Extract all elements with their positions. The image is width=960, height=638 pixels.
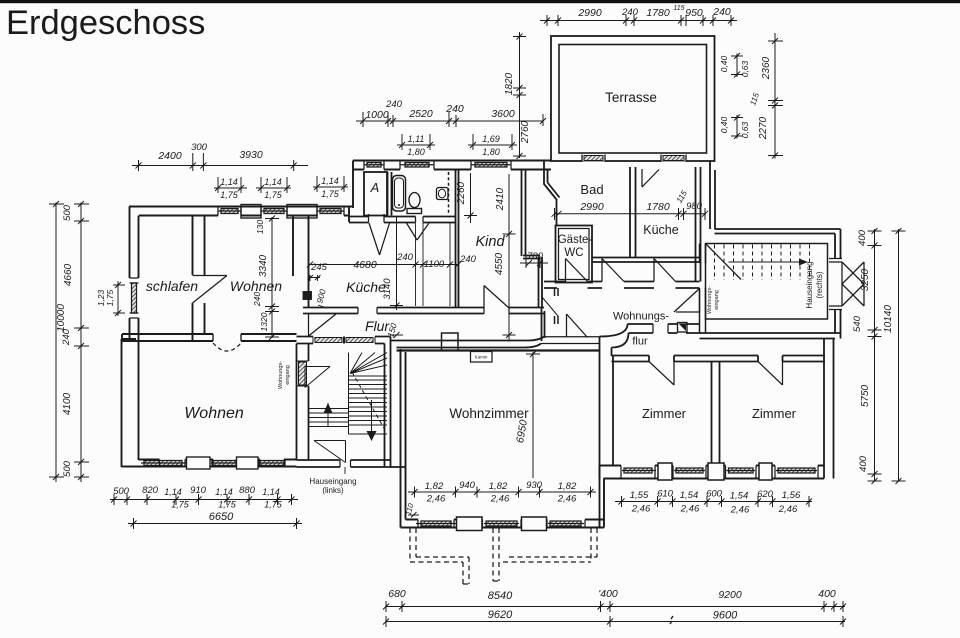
svg-text:4660: 4660 <box>63 263 74 286</box>
svg-text:Terrasse: Terrasse <box>605 90 657 105</box>
Wohnzimmer south wall band <box>401 520 605 528</box>
svg-text:2760: 2760 <box>520 120 531 144</box>
door A swing V <box>369 223 390 255</box>
svg-text:1,14: 1,14 <box>164 487 182 497</box>
window W-C2 Wohnzimmer <box>483 520 522 528</box>
svg-text:0,40: 0,40 <box>719 55 729 72</box>
small dims 0,40 0,63 pair lower <box>731 115 743 140</box>
Zimmer dim chain 1,55 610 1,54 600 1,54 620 1,56 / 2,46 <box>615 496 812 507</box>
svg-text:flur: flur <box>632 336 648 348</box>
svg-text:10140: 10140 <box>883 305 894 333</box>
svg-text:400: 400 <box>858 455 869 472</box>
dim 6650 <box>128 518 302 529</box>
stairs walk line dashed <box>352 372 385 430</box>
dim chain 4680 240 1100 240 <box>307 262 461 268</box>
svg-text:'400: '400 <box>598 588 618 600</box>
svg-text:8540: 8540 <box>488 590 513 602</box>
window W-Z1 <box>621 466 656 479</box>
east wall of Kind <box>522 170 526 256</box>
bottom-left dim chain 500 820 1,14 910 1,14 880 1,14 <box>110 494 298 505</box>
toilet WC bowl <box>409 193 420 208</box>
Bad west wall with chamfer <box>544 161 557 226</box>
svg-text:600: 600 <box>706 489 723 500</box>
boiler symbol black square BB <box>303 292 312 300</box>
winder fan treads <box>350 353 387 374</box>
svg-text:3930: 3930 <box>239 149 263 161</box>
svg-text:2360: 2360 <box>761 56 772 80</box>
window W-M2 <box>400 161 434 170</box>
window W-M1 <box>364 161 384 170</box>
bottom dim line 9620 9600 <box>383 616 846 627</box>
bath east partition dashed <box>448 172 450 215</box>
door Wohnen-stairwell hatched <box>297 361 309 386</box>
winder stairs box <box>349 353 388 435</box>
door bath swing V <box>407 223 430 240</box>
door Kueche north leaf and swing <box>642 169 659 187</box>
window W-Z4 <box>775 466 818 479</box>
svg-text:1,14: 1,14 <box>215 487 233 497</box>
stairs cut diagonal <box>706 244 741 280</box>
north wall left section outer line <box>129 206 353 208</box>
svg-text:1,14: 1,14 <box>262 487 280 497</box>
stair hall walls <box>706 244 828 320</box>
svg-text:950: 950 <box>685 7 703 19</box>
door Zimmer2 leaf and swing <box>758 362 783 386</box>
vertical dim 1820 / 2760 left of Terrasse <box>513 32 526 159</box>
svg-text:(rechts): (rechts) <box>815 271 824 298</box>
pier block 1 <box>187 457 211 469</box>
Hauseingang links door jambs <box>340 460 351 467</box>
svg-text:Zimmer: Zimmer <box>752 406 797 421</box>
stair hall bottom wall band <box>700 333 841 339</box>
svg-text:2,46: 2,46 <box>426 494 446 505</box>
svg-text:2260: 2260 <box>456 181 467 205</box>
door A jambs <box>369 214 385 223</box>
stairwell east wall <box>385 351 391 467</box>
window dim 1,23/1,75 rotated at west wall <box>113 281 125 316</box>
south wall upper Wohnen band <box>241 334 297 341</box>
svg-text:Erdgeschoss: Erdgeschoss <box>6 4 205 42</box>
window dim 1,69/1,80 <box>468 134 517 150</box>
door Kueche-south jambs <box>358 308 377 314</box>
corridor double door hatched bar 2 <box>345 337 376 344</box>
svg-text:2270: 2270 <box>758 116 769 140</box>
Wohnzimmer interior dim chain 1,82 940 1,82 930 1,82 / 2,46 <box>408 487 596 498</box>
svg-text:2,46: 2,46 <box>778 504 798 515</box>
svg-text:2410: 2410 <box>495 187 506 211</box>
Terrasse outer wall <box>551 36 715 161</box>
chimney bump above Wohnzimmer <box>442 333 459 350</box>
window W-Z3 <box>726 466 757 479</box>
pier block W1 <box>457 517 483 531</box>
dim 2410 / 4550 vertical <box>503 174 516 340</box>
svg-text:1,75: 1,75 <box>218 500 237 510</box>
window W-C1 Wohnzimmer <box>416 520 456 528</box>
svg-text:Kamin: Kamin <box>475 355 488 360</box>
svg-text:Wohnungs-: Wohnungs- <box>278 361 284 389</box>
svg-text:1820: 1820 <box>504 72 515 95</box>
svg-text:6650: 6650 <box>209 511 234 523</box>
svg-text:eingang: eingang <box>285 365 291 385</box>
svg-text:A: A <box>370 180 380 195</box>
window dim 1,11/1,80 <box>397 134 435 150</box>
svg-text:240: 240 <box>459 254 477 265</box>
small dims 0,40 0,63 pair upper <box>731 53 743 78</box>
svg-text:1,56: 1,56 <box>782 490 801 501</box>
svg-text:(links): (links) <box>322 486 344 495</box>
svg-text:500: 500 <box>113 486 130 497</box>
right apartment corridor south wall <box>612 356 826 362</box>
Kind nook wall horizontal <box>523 256 540 259</box>
pier block 2 <box>237 457 259 469</box>
svg-text:240: 240 <box>621 7 639 18</box>
svg-text:300: 300 <box>191 142 208 153</box>
door Kueche leaf and swing <box>654 259 676 282</box>
svg-text:880: 880 <box>239 485 256 496</box>
svg-text:1100: 1100 <box>424 259 445 270</box>
top border rule <box>0 0 960 3</box>
wall pier between W-L1 and W-L2 <box>241 205 261 219</box>
svg-text:0,63: 0,63 <box>740 121 750 138</box>
Wohnungsflur south wall curved junction inner arc <box>612 333 629 348</box>
corridor south wall at jog <box>375 337 391 344</box>
Kind nook wall vertical <box>539 257 543 308</box>
dim 3140 vertical <box>390 217 403 310</box>
Wohnzimmer west wall <box>401 349 406 528</box>
wall between A and bath <box>388 172 392 216</box>
Wohnzimmer north wall <box>397 349 600 351</box>
wall between upper Wohnen and Kueche <box>293 216 309 309</box>
corridor south wall east band <box>391 341 529 348</box>
wash basin <box>437 188 449 200</box>
window W-T2 Terrasse south wall <box>661 155 686 162</box>
svg-text:1,75: 1,75 <box>264 500 283 510</box>
svg-text:0,63: 0,63 <box>740 60 750 77</box>
svg-text:Gäste-: Gäste- <box>558 234 593 246</box>
dashed terrace outline below Wohnzimmer <box>410 528 597 584</box>
Zimmer section bottom wall band <box>600 463 825 480</box>
stairwell south wall band <box>297 460 406 467</box>
label Hauseingang (links) with leader <box>344 467 346 474</box>
svg-text:2990: 2990 <box>579 201 604 213</box>
stair hall left wall band <box>700 244 706 334</box>
west wall of Kind <box>456 170 459 308</box>
wall between Zimmer1 and Zimmer2 <box>712 362 720 466</box>
dimension chain 1000 240 2520 240 3600 <box>356 112 546 127</box>
svg-text:Hauseingang: Hauseingang <box>309 477 356 486</box>
west wall schlafen <box>130 207 139 341</box>
svg-text:Wohnungs-: Wohnungs- <box>707 286 713 314</box>
svg-text:940: 940 <box>459 480 476 491</box>
Gaeste-WC box inner <box>559 229 590 280</box>
svg-text:1,80: 1,80 <box>407 147 425 157</box>
svg-text:240: 240 <box>61 328 72 346</box>
svg-text:240: 240 <box>385 99 403 110</box>
Wohnen west wall <box>122 339 139 467</box>
svg-text:2,46: 2,46 <box>631 504 651 515</box>
door corridor-Wohnungsflur leaf and swing <box>567 314 588 338</box>
svg-text:1,75: 1,75 <box>171 500 190 510</box>
svg-text:Küche: Küche <box>346 279 386 295</box>
east wall at stairhall <box>835 229 841 339</box>
svg-text:1,11: 1,11 <box>408 134 425 144</box>
apartment separating wall Wohnzimmer/Zimmer <box>600 337 614 521</box>
door Wohnungsflur jambs <box>653 324 668 333</box>
witness lines for 1100 dim <box>416 223 459 306</box>
door schlafen leaf and swing <box>193 276 228 304</box>
corridor north wall band (Kueche/Kind south) <box>303 308 544 314</box>
Kueche east wall <box>696 167 701 282</box>
window dim 1,14/1,75 no2 <box>256 177 291 193</box>
svg-text:9200: 9200 <box>718 589 742 601</box>
door Wohnungsflur west swing <box>542 297 558 316</box>
winder treads horizontal <box>349 376 388 425</box>
pier block Z2 wall foot <box>708 463 724 480</box>
svg-text:2,46: 2,46 <box>680 504 700 515</box>
window W-Z2 <box>673 466 706 479</box>
door Bad leaf and swing <box>602 259 624 282</box>
door Zimmer1 leaf and swing <box>649 362 674 386</box>
svg-text:0,40: 0,40 <box>719 116 729 133</box>
Wohnungsflur west wall with door <box>555 288 559 324</box>
door upper Wohnen-Kueche swing triangle <box>309 314 337 336</box>
svg-text:240: 240 <box>396 252 414 263</box>
svg-text:1,14: 1,14 <box>220 177 238 187</box>
svg-text:680: 680 <box>388 588 406 600</box>
east step wall of Wohnzimmer section <box>600 466 605 528</box>
door wohnungseingang right swing triangle <box>674 289 700 313</box>
svg-text:Wohnzimmer: Wohnzimmer <box>449 406 529 421</box>
bathtub <box>393 176 406 212</box>
building east wall upper <box>710 161 715 229</box>
svg-text:Bad: Bad <box>580 182 603 197</box>
svg-text:2520: 2520 <box>408 108 433 120</box>
dimension 2400 300 3930 <box>132 153 308 171</box>
svg-text:2990: 2990 <box>577 7 602 19</box>
window W-L2 <box>261 207 287 216</box>
Hauseingang rechts door swing bowtie <box>842 262 864 306</box>
svg-text:130: 130 <box>255 220 265 234</box>
svg-text:1,14: 1,14 <box>321 176 339 186</box>
svg-text:3140: 3140 <box>382 278 393 300</box>
svg-text:Kind: Kind <box>475 234 505 250</box>
svg-text:5750: 5750 <box>860 384 871 407</box>
right dim column outer 10140 <box>892 228 906 484</box>
svg-text:4100: 4100 <box>62 392 73 415</box>
bottom dim chain 680 8540 400 9200 400 <box>383 601 846 612</box>
room A (Abstellraum) <box>364 172 387 216</box>
svg-text:3250: 3250 <box>860 268 871 291</box>
svg-text:240: 240 <box>712 6 731 18</box>
north wall middle section outer line <box>353 160 551 162</box>
electro box black square <box>678 323 688 333</box>
svg-text:980: 980 <box>686 201 703 212</box>
dashed arc wall opening upper Wohnen to Wohnen <box>213 334 241 341</box>
svg-text:4550: 4550 <box>494 252 505 275</box>
window W-M3 above Kind <box>471 161 511 170</box>
door stairwell north swing triangle <box>305 367 330 388</box>
Gaeste-WC box outer <box>556 226 593 283</box>
svg-text:115: 115 <box>673 5 684 12</box>
Wohnzimmer walls <box>397 333 605 531</box>
svg-text:Wohnen: Wohnen <box>184 405 244 422</box>
svg-text:9600: 9600 <box>713 610 738 622</box>
dim chain Bad 2990 1780 980 <box>552 208 709 220</box>
svg-text:1,75: 1,75 <box>264 190 283 200</box>
svg-text:1,54: 1,54 <box>680 490 699 501</box>
svg-text:1320: 1320 <box>259 312 269 331</box>
svg-text:245: 245 <box>310 262 328 273</box>
south wall schlafen band <box>122 334 213 341</box>
wall pier between W-L2 and W-L3 <box>287 205 317 219</box>
svg-text:400: 400 <box>818 588 836 600</box>
left dim column inner line 500 4660 240 4100 500 <box>74 201 89 482</box>
svg-text:1000: 1000 <box>365 109 389 121</box>
svg-text:Küche: Küche <box>643 223 678 237</box>
svg-text:500: 500 <box>62 204 73 221</box>
svg-text:610: 610 <box>657 489 674 500</box>
wall between schlafen and upper Wohnen <box>193 216 205 342</box>
svg-text:Hauseingang: Hauseingang <box>805 261 814 308</box>
svg-text:schlafen: schlafen <box>146 278 198 294</box>
door Kind jambs <box>484 308 509 314</box>
dim 6950 vertical <box>526 351 540 478</box>
Bad/Kueche separating wall <box>630 167 636 258</box>
svg-text:240: 240 <box>445 103 464 115</box>
stairs down arrow <box>367 431 377 441</box>
svg-text:1,75: 1,75 <box>321 189 340 199</box>
window W-B2 Wohnen <box>211 460 237 467</box>
svg-text:1,75: 1,75 <box>105 289 115 306</box>
window W-C3 Wohnzimmer <box>547 520 585 528</box>
entry steps left of stairs <box>309 403 349 427</box>
north wall middle section inner line <box>353 169 551 171</box>
left dim column outer line 10000 <box>49 201 64 482</box>
window W-T1 Terrasse south wall <box>582 155 605 162</box>
dimension chain top of Terrasse 2990 240 1780 115 950 240 <box>540 15 737 26</box>
Wohnungsflur south wall band <box>628 324 700 333</box>
svg-text:1,14: 1,14 <box>264 177 282 187</box>
pier block W2 <box>522 517 547 531</box>
door Hauseingang links swing triangle <box>314 441 346 463</box>
step wall between left and middle sections <box>352 161 354 209</box>
svg-text:Zimmer: Zimmer <box>642 406 687 421</box>
svg-text:1780: 1780 <box>646 7 670 19</box>
svg-text:1,54: 1,54 <box>730 491 749 502</box>
svg-text:540: 540 <box>852 315 863 332</box>
svg-text:10000: 10000 <box>56 304 67 332</box>
svg-text:930: 930 <box>526 480 543 491</box>
stairwell center walls <box>297 344 406 468</box>
north wall left section inner line <box>139 215 349 217</box>
window dim 1,14/1,75 no3 <box>313 176 348 192</box>
Terrasse inner wall line <box>559 45 707 154</box>
corridor south band S-curve end <box>524 337 544 348</box>
svg-text:Wohnungs-: Wohnungs- <box>613 311 669 323</box>
Kamin box <box>471 352 493 363</box>
stairs main flight dashed treads <box>715 245 810 281</box>
svg-text:2,46: 2,46 <box>730 505 750 516</box>
svg-text:9620: 9620 <box>488 609 513 621</box>
vertical dim chain 130 3340 240 1320 <box>265 216 279 341</box>
svg-text:1,82: 1,82 <box>425 481 444 492</box>
window W-L1 <box>218 207 241 216</box>
svg-text:820: 820 <box>142 485 159 496</box>
door bath jambs <box>416 217 424 223</box>
svg-text:3600: 3600 <box>491 108 515 120</box>
svg-text:1780: 1780 <box>646 201 670 213</box>
svg-text:WC: WC <box>564 247 583 259</box>
svg-text:2,46: 2,46 <box>557 494 577 505</box>
svg-text:Wohnen: Wohnen <box>230 278 282 294</box>
corridor double door hatched bar 1 <box>313 337 344 344</box>
svg-text:3340: 3340 <box>258 254 269 277</box>
pier block Z3 <box>759 463 772 480</box>
south wall of A/bath strip <box>349 217 456 223</box>
svg-text:eingang: eingang <box>714 290 720 310</box>
pier block Z1 <box>658 463 672 480</box>
Wohnen join to schlafen wall <box>122 339 137 341</box>
Wohnen south wall band <box>122 460 297 467</box>
Kind east jog wall down to corridor <box>542 308 545 341</box>
window W-L0 schlafen west wall <box>130 278 139 318</box>
central corridor south wall west band <box>297 337 314 344</box>
dim 2260 vertical <box>464 173 477 223</box>
door Gaeste-WC leaf and swing <box>566 259 588 282</box>
svg-text:910: 910 <box>190 485 207 496</box>
vertical dim 2360 / 2270 right of Terrasse <box>768 33 783 159</box>
window W-L3 <box>317 207 344 216</box>
door Kind leaf and swing <box>484 286 509 309</box>
window W-B3 Wohnen <box>258 460 285 467</box>
svg-text:500: 500 <box>62 460 73 477</box>
svg-text:2,46: 2,46 <box>490 494 510 505</box>
Wohnungsflur south wall curved junction outer arc <box>600 324 628 337</box>
svg-text:1,75: 1,75 <box>220 190 239 200</box>
svg-text:1,55: 1,55 <box>630 490 649 501</box>
svg-text:1,82: 1,82 <box>558 481 577 492</box>
window W-B1 Wohnen <box>141 460 186 467</box>
svg-text:4680: 4680 <box>353 259 377 271</box>
svg-text:400: 400 <box>857 229 868 246</box>
stairs direction line with arrow <box>729 261 801 263</box>
Hauseingang rechts door jambs <box>829 259 842 310</box>
Bad and Kueche south wall <box>592 258 700 263</box>
svg-text:1,80: 1,80 <box>482 147 500 157</box>
stairhall top wall band <box>700 229 865 339</box>
Wohnungsflur north wall band <box>544 282 700 289</box>
svg-text:2400: 2400 <box>157 150 182 162</box>
svg-text:1,69: 1,69 <box>482 134 500 144</box>
svg-text:620: 620 <box>757 489 774 500</box>
right dim column inner 400 3250 540 5750 400 <box>868 228 882 484</box>
jog wall down to Wohnzimmer <box>385 337 391 353</box>
door corridor to Wohnungsflur threshold <box>541 337 600 344</box>
svg-text:1,82: 1,82 <box>489 481 508 492</box>
svg-text:240: 240 <box>252 292 262 307</box>
dim 780 nook <box>520 256 548 268</box>
east wall lower <box>824 339 834 479</box>
svg-text:780: 780 <box>527 251 544 262</box>
window dim 1,14/1,75 no1 <box>214 177 247 193</box>
